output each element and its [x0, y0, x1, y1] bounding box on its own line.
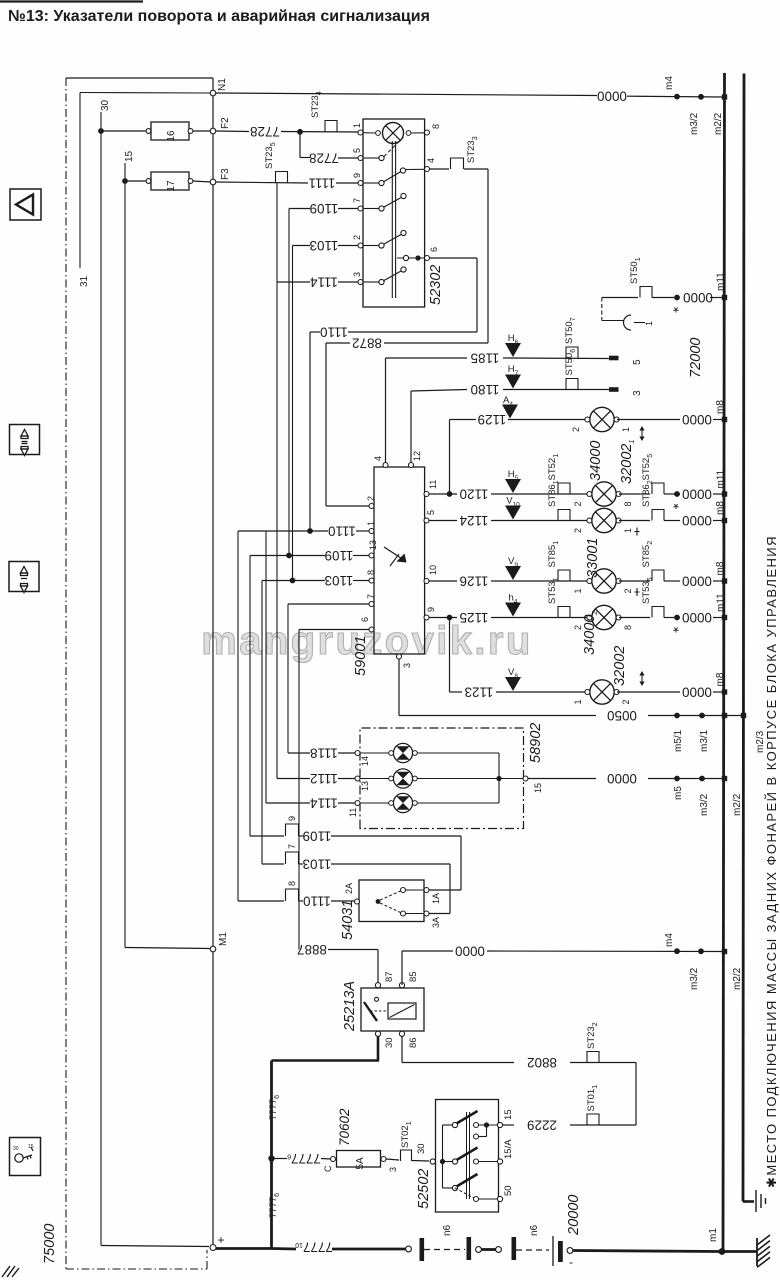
connector ST86_1	[558, 510, 570, 521]
svg-text:N1: N1	[217, 78, 228, 91]
battery 20000 negative plates	[552, 1236, 554, 1266]
hazard warning icon	[10, 189, 41, 220]
junction m1	[719, 1248, 726, 1255]
svg-text:1103: 1103	[303, 857, 332, 872]
svg-text:m1: m1	[708, 1228, 719, 1242]
svg-text:n6: n6	[442, 1224, 453, 1236]
svg-text:1: 1	[573, 588, 583, 593]
wire 7728 branch to pin 5	[299, 132, 301, 158]
52502 contact arm 50	[452, 1185, 457, 1190]
svg-text:*: *	[673, 619, 679, 636]
enclosure central electric unit: top edge	[66, 77, 213, 79]
svg-text:7728: 7728	[250, 124, 280, 139]
svg-text:1110: 1110	[320, 325, 348, 340]
wire 0000 row 1123	[617, 691, 680, 693]
wire 0000 row m5	[528, 778, 596, 780]
svg-text:17: 17	[166, 180, 177, 192]
wire 8872 vertical	[487, 169, 489, 343]
terminal + (battery feed)	[210, 1245, 216, 1251]
wire 8872	[326, 342, 350, 344]
wire 8802 relay 86	[401, 1037, 403, 1063]
pin 4 collector row	[406, 168, 425, 170]
connector ST23_2	[587, 1052, 599, 1063]
wire 31	[80, 92, 211, 95]
svg-text:0000: 0000	[455, 944, 485, 959]
ground bus bar 2	[743, 74, 744, 1202]
wire 1129 row	[450, 419, 477, 421]
connector ST52_5	[619, 493, 650, 495]
battery terminal minus	[567, 1248, 573, 1254]
svg-text:1125: 1125	[460, 610, 489, 625]
side repeater lamp 32002_1	[585, 407, 619, 431]
svg-text:70602: 70602	[337, 1108, 352, 1146]
intermittent unit 54031 body	[359, 880, 424, 922]
central unit boundary line with terminals	[212, 78, 214, 1246]
svg-text:m11: m11	[716, 469, 727, 488]
svg-text:13: 13	[368, 540, 378, 550]
wire 1124 row	[429, 520, 457, 522]
svg-text:8872: 8872	[352, 336, 382, 351]
wire 1111/1114 drop	[276, 183, 278, 779]
svg-text:30: 30	[384, 1037, 395, 1048]
flasher pin 1 / wire 1110	[369, 529, 374, 534]
svg-text:ST011: ST011	[586, 1085, 599, 1112]
ground bus bar 1	[723, 73, 725, 1252]
svg-text:2: 2	[352, 235, 362, 240]
54031 pin 3A	[424, 911, 429, 916]
svg-text:1110: 1110	[328, 524, 356, 539]
svg-text:3: 3	[402, 663, 412, 668]
15/A aux contact	[474, 1134, 479, 1139]
turn lamp at row 1120	[587, 482, 621, 506]
hazard lamp 3	[360, 802, 391, 804]
wire 1129 branch vertical	[449, 420, 451, 495]
junction wire15/fuse17	[122, 178, 128, 184]
svg-text:2A: 2A	[344, 883, 354, 894]
fuse 16	[101, 130, 147, 132]
wire 1111 from F3	[216, 182, 308, 183]
svg-text:ST521: ST521	[547, 454, 560, 481]
svg-text:7728: 7728	[309, 151, 339, 166]
wire 1103 row hazard	[293, 245, 311, 247]
svg-text:2: 2	[621, 699, 631, 704]
wire 1109 drop from hazard pin 7	[288, 209, 290, 556]
svg-text:ST232: ST232	[586, 1022, 599, 1049]
lamp A4 indicator	[502, 405, 518, 419]
svg-text:2: 2	[573, 501, 583, 506]
svg-text:11: 11	[428, 480, 438, 489]
connector ST52_1	[558, 483, 570, 494]
svg-text:4: 4	[426, 158, 436, 163]
lamp H7 indicator	[505, 375, 521, 389]
svg-text:0000: 0000	[682, 487, 712, 502]
svg-text:ST525: ST525	[641, 454, 654, 481]
lamp H6 indicator	[505, 343, 521, 357]
svg-text:1112: 1112	[310, 771, 338, 786]
svg-text:340002: 340002	[582, 611, 599, 655]
svg-text:1103: 1103	[310, 238, 339, 253]
svg-text:0050: 0050	[607, 708, 637, 723]
svg-text:ST531: ST531	[547, 577, 560, 604]
wire pin6 to 1110 row	[430, 257, 478, 259]
wire flasher pin6 down to 8887 row	[298, 630, 300, 950]
lamp V10 indicator	[505, 506, 521, 520]
svg-text:ST235: ST235	[264, 142, 277, 169]
svg-text:15: 15	[124, 150, 135, 162]
svg-text:1114: 1114	[310, 796, 338, 811]
junction m5/1	[674, 713, 680, 719]
wire 1110 drop	[309, 332, 311, 531]
svg-text:1A: 1A	[431, 893, 441, 904]
hazard lamp 2	[360, 778, 391, 780]
wire 1110 to connector 8	[238, 900, 284, 902]
relay switch arm	[375, 997, 379, 1001]
54031 pin 1A	[424, 888, 429, 893]
top ground wire 0000 to m2/2	[216, 93, 597, 96]
svg-text:8: 8	[287, 881, 297, 886]
stub terminal 3 of 72000	[609, 387, 619, 392]
flasher pin 9	[424, 615, 429, 620]
flasher pin 5	[424, 518, 429, 523]
wire 1125 row	[429, 617, 457, 619]
svg-text:15/A: 15/A	[503, 1139, 514, 1159]
svg-text:1: 1	[644, 321, 654, 326]
svg-text:1109: 1109	[303, 829, 332, 844]
hazard switch 52302 body	[363, 119, 425, 307]
svg-text:*: *	[673, 299, 679, 316]
connector ST85_2	[619, 580, 650, 582]
lamp V9 indicator	[505, 566, 521, 580]
svg-text:9: 9	[352, 173, 362, 178]
flasher arrow symbol	[384, 547, 404, 560]
svg-text:6: 6	[429, 247, 439, 252]
svg-text:30: 30	[416, 1143, 427, 1154]
svg-text:30: 30	[13, 1146, 19, 1152]
svg-text:m2/2: m2/2	[732, 793, 743, 816]
hazard common bar	[391, 141, 393, 298]
svg-text:1129: 1129	[478, 412, 507, 427]
svg-text:F2: F2	[220, 117, 231, 129]
svg-text:3: 3	[352, 272, 362, 277]
inter-battery link 2	[516, 1249, 549, 1251]
svg-text:1123: 1123	[465, 685, 494, 700]
svg-text:1: 1	[573, 699, 583, 704]
svg-text:33001: 33001	[585, 538, 601, 578]
svg-text:1126: 1126	[460, 574, 489, 589]
wire pin4 to ST23_3	[430, 168, 450, 170]
wire 30 vertical to battery plus	[100, 112, 102, 1246]
58902 pin 13 / wire 1112	[355, 776, 360, 781]
wire 2229	[635, 1063, 637, 1126]
unit 58902 body (dash-dot)	[360, 728, 524, 829]
svg-text:25213A: 25213A	[342, 981, 358, 1032]
heavy wire 7777/10 from +	[216, 1247, 272, 1250]
adjuster arrow	[639, 426, 644, 441]
52502 coupling bar	[466, 1112, 468, 1199]
svg-text:C: C	[323, 1165, 333, 1172]
wire 1110 upper	[310, 331, 320, 333]
tick marks under lamps	[636, 528, 638, 536]
fuse 70602 5A	[331, 1157, 336, 1162]
heavy ground wire to m1	[573, 1251, 720, 1252]
svg-text:13: 13	[360, 781, 370, 791]
inter-battery link	[424, 1249, 465, 1251]
svg-text:m3/2: m3/2	[689, 967, 700, 990]
svg-text:0000: 0000	[597, 89, 627, 104]
relay pin 85	[399, 983, 404, 988]
enclosure bottom edge	[66, 1268, 207, 1270]
52502 contact arm 15/A	[452, 1159, 457, 1164]
svg-text:1: 1	[623, 528, 633, 533]
wire 1109 row hazard	[289, 208, 310, 210]
svg-text:m8: m8	[715, 400, 726, 414]
svg-text:ST506: ST506	[564, 349, 577, 376]
scan artifact bottom-left hatch	[2, 1266, 19, 1277]
lamp h4 indicator	[505, 603, 521, 617]
turn indicator icon 1	[10, 425, 40, 455]
wire 0000 relay 85 to bus (m4)	[401, 951, 403, 985]
battery 2 plates	[467, 1237, 472, 1260]
pin 2 pole	[358, 243, 363, 248]
turn lamp at row 1125	[587, 605, 621, 629]
svg-text:14: 14	[360, 756, 370, 766]
svg-text:m8: m8	[715, 501, 726, 515]
hazard pilot lamp	[376, 123, 411, 144]
svg-text:0000: 0000	[607, 771, 637, 786]
svg-text:ST851: ST851	[547, 541, 560, 568]
wire 1123 vertical	[449, 618, 451, 693]
relay pin 87	[375, 983, 380, 988]
svg-text:m11: m11	[716, 272, 727, 291]
connector ST85_1	[558, 570, 570, 581]
side repeater lamp 32002	[585, 680, 619, 704]
svg-text:11: 11	[348, 808, 358, 817]
pin 7 pole	[358, 206, 363, 211]
terminal M1	[210, 946, 216, 952]
wire 1126 row	[429, 580, 457, 582]
flasher pin 2	[369, 504, 374, 509]
svg-text:58902: 58902	[528, 723, 544, 763]
svg-text:ST507: ST507	[564, 317, 577, 344]
svg-text:m3/1: m3/1	[699, 729, 710, 752]
svg-text:54031: 54031	[340, 900, 356, 940]
svg-text:34000: 34000	[588, 441, 604, 481]
svg-text:m4: m4	[664, 933, 675, 947]
connector ST23_4	[325, 121, 337, 132]
svg-text:52502: 52502	[416, 1169, 432, 1209]
junction m3/2	[699, 776, 705, 782]
flasher pin 11	[424, 492, 429, 497]
relay 25213A body	[361, 988, 424, 1031]
lamp H5 indicator	[505, 479, 521, 493]
svg-text:m8: m8	[715, 672, 726, 686]
svg-text:ST233: ST233	[466, 136, 479, 163]
junction m3/2 (top)	[698, 94, 704, 100]
flasher unit 59001 body	[374, 467, 425, 654]
wire 8872 drop to flasher pin 2	[325, 343, 327, 506]
wire 1103 to connector 7	[262, 863, 284, 865]
wire 1103 drop from hazard pin 2	[292, 246, 294, 581]
svg-text:m3/2: m3/2	[699, 793, 710, 816]
svg-text:6: 6	[360, 617, 370, 622]
svg-text:87: 87	[384, 971, 395, 982]
junction + asterisk note	[674, 295, 680, 301]
svg-text:31: 31	[79, 275, 90, 287]
connector ST50_1	[640, 287, 652, 298]
svg-text:20000: 20000	[566, 1195, 582, 1236]
svg-text:0000: 0000	[682, 513, 712, 528]
connector ST53_1	[558, 607, 570, 618]
chassis ground hatching	[757, 1235, 770, 1267]
pin 9 pole	[358, 181, 363, 186]
flasher pin 10	[424, 579, 429, 584]
pin 3 pole	[358, 280, 363, 285]
fuse 17	[125, 180, 147, 182]
svg-text:F3: F3	[220, 168, 231, 180]
svg-text:7: 7	[366, 594, 376, 599]
54031 pin 2A	[355, 899, 360, 904]
junction + asterisk	[674, 615, 680, 621]
svg-text:2229: 2229	[527, 1118, 557, 1133]
flasher pin 3	[397, 654, 402, 659]
svg-text:8887: 8887	[297, 942, 327, 957]
turn lamp at row 1124	[587, 508, 621, 532]
52502 pin 30	[430, 1159, 435, 1164]
52502 terminal 15	[497, 1122, 502, 1127]
connector ST23_3	[451, 158, 464, 169]
svg-text:52302: 52302	[428, 265, 444, 305]
relay pin 30	[375, 1031, 380, 1036]
svg-text:ST234: ST234	[310, 91, 323, 118]
junction m4 (top)	[674, 94, 680, 100]
svg-text:50: 50	[503, 1185, 514, 1196]
58902 pin 14 / wire 1118	[355, 751, 360, 756]
svg-text:0000: 0000	[682, 685, 712, 700]
lamp V8 indicator	[505, 677, 521, 691]
svg-text:1118: 1118	[310, 746, 338, 761]
svg-text:2: 2	[366, 496, 376, 501]
horn contact arc component	[601, 298, 603, 321]
wire to ST50_1 ground	[602, 297, 638, 299]
svg-text:-: -	[569, 1255, 573, 1269]
wire 1114 row to hazard pin 3	[277, 281, 310, 283]
wire 0000 row 1129	[617, 419, 680, 421]
svg-text:ST501: ST501	[629, 257, 642, 284]
bundle vertical to 54031 2A (1110)	[237, 531, 239, 901]
svg-text:15: 15	[503, 1109, 514, 1120]
svg-text:15: 15	[28, 1144, 34, 1150]
svg-text:2: 2	[571, 427, 581, 432]
svg-text:+: +	[217, 1233, 224, 1247]
bundle vertical to 1109 row (54031 1A)	[249, 556, 251, 837]
svg-text:1: 1	[366, 521, 376, 526]
wire 1185 row	[386, 357, 468, 359]
svg-text:1: 1	[621, 427, 631, 432]
svg-text:1109: 1109	[310, 201, 339, 216]
svg-text:10: 10	[428, 565, 438, 575]
svg-text:1124: 1124	[459, 513, 488, 528]
pin 5 pole	[358, 156, 363, 161]
bundle vertical to 1103 row (54031 3A)	[261, 581, 263, 865]
52502 contact arm 15	[452, 1122, 457, 1127]
turn lamp at row 1126	[587, 569, 621, 593]
svg-text:m5: m5	[673, 786, 684, 800]
svg-text:8802: 8802	[527, 1055, 557, 1070]
svg-text:0000: 0000	[682, 610, 712, 625]
svg-text:№13: Указатели поворота и авар: №13: Указатели поворота и аварийная сигн…	[8, 8, 430, 25]
terminal N1	[210, 90, 216, 96]
connector ST23_5	[276, 172, 288, 183]
connector ST86_2	[619, 520, 650, 522]
svg-text:m4: m4	[664, 76, 675, 90]
svg-text:m2/2: m2/2	[732, 967, 743, 990]
svg-text:2: 2	[623, 588, 633, 593]
connector ST50_6	[566, 379, 578, 390]
junction wire30/fuse16	[98, 128, 104, 134]
terminal F2	[210, 128, 216, 134]
svg-text:5A: 5A	[355, 1157, 366, 1170]
svg-text:*: *	[673, 495, 679, 512]
junction + asterisk	[674, 491, 680, 497]
wire 7728 from F2	[216, 130, 249, 133]
svg-text:7: 7	[287, 844, 297, 849]
svg-text:32002: 32002	[612, 646, 628, 686]
svg-text:72000: 72000	[688, 338, 704, 378]
svg-text:1111: 1111	[309, 176, 336, 191]
svg-text:16: 16	[166, 130, 177, 142]
svg-text:M1: M1	[218, 932, 229, 946]
svg-text:0000: 0000	[682, 574, 712, 589]
svg-text:4: 4	[373, 456, 383, 461]
svg-text:ST021: ST021	[400, 1121, 413, 1148]
svg-text:m11: m11	[716, 593, 727, 612]
svg-text:75000: 75000	[42, 1224, 58, 1264]
junction m5	[674, 776, 680, 782]
svg-text:9: 9	[426, 607, 436, 612]
58902 pin 11 / wire 1114	[355, 801, 360, 806]
svg-text:✱МЕСТО ПОДКЛЮЧЕНИЯ МАССЫ ЗАДНИ: ✱МЕСТО ПОДКЛЮЧЕНИЯ МАССЫ ЗАДНИХ ФОНАРЕЙ …	[764, 535, 779, 1188]
svg-text:ST535: ST535	[641, 577, 654, 604]
svg-text:320021: 320021	[619, 440, 636, 484]
ignition switch 52502 body	[436, 1100, 499, 1213]
flasher top pin 12	[409, 463, 414, 468]
svg-text:12: 12	[412, 451, 422, 461]
svg-text:ST862: ST862	[641, 480, 654, 507]
svg-text:ST852: ST852	[641, 541, 654, 568]
52502 link bar	[442, 1125, 444, 1188]
wire 15 to M1	[125, 948, 210, 949]
svg-text:3: 3	[388, 1167, 398, 1172]
connector ST50_7	[566, 347, 578, 358]
connector ST01_1	[587, 1114, 599, 1125]
svg-text:n6: n6	[529, 1224, 540, 1236]
turn indicator icon 2	[9, 562, 39, 592]
svg-text:3: 3	[632, 390, 643, 396]
wire 1123 row	[450, 691, 463, 693]
adjuster arrow	[639, 671, 644, 686]
flasher top pin 4	[383, 463, 388, 468]
ignition key icon	[10, 1138, 41, 1176]
wire 1120 row	[429, 493, 457, 495]
svg-text:15: 15	[533, 783, 543, 793]
52502 terminal 15/A	[497, 1159, 502, 1164]
svg-text:9: 9	[287, 816, 297, 821]
relay pin 86	[399, 1031, 404, 1036]
heavy wire 7777/6 riser	[270, 1061, 273, 1249]
svg-text:ST861: ST861	[547, 480, 560, 507]
svg-text:m8: m8	[715, 561, 726, 575]
svg-text:1110: 1110	[303, 894, 331, 909]
